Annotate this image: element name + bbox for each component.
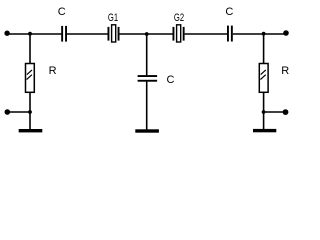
wire [29,93,31,112]
terminal input top [4,31,9,36]
resistor R (left) [26,64,35,93]
wire [7,33,61,35]
wire [263,93,265,112]
node junction left top [28,32,32,36]
node junction left bottom [28,110,32,114]
capacitor C (right series) [227,26,233,42]
terminal input bottom [5,109,11,115]
crystal G1 [108,25,120,42]
node junction right bottom [262,110,266,114]
node junction middle [145,32,149,36]
crystal G2 [173,25,185,42]
wire [263,112,265,130]
wire [29,34,31,64]
resistor R (right) [259,64,268,93]
ground (left) [19,129,43,132]
wire [263,34,265,64]
wire [146,34,148,75]
node junction right top [262,32,266,36]
wire [233,33,286,35]
svg-text:C: C [167,74,175,86]
svg-text:G2: G2 [174,12,184,24]
svg-text:C: C [225,6,233,18]
terminal output top [283,30,289,36]
terminal output bottom [283,109,289,115]
wire [264,111,286,113]
capacitor C (shunt middle) [138,75,158,82]
wire [67,33,108,35]
wire [185,33,228,35]
capacitor C (left series) [61,26,67,42]
svg-text:C: C [58,6,66,18]
svg-text:R: R [281,65,289,77]
ground (middle) [135,129,159,132]
svg-text:G1: G1 [108,12,118,24]
svg-text:R: R [49,65,57,77]
ground (right) [253,129,276,132]
wire [7,111,30,113]
wire [120,33,173,35]
wire [146,82,148,130]
wire [29,112,31,130]
